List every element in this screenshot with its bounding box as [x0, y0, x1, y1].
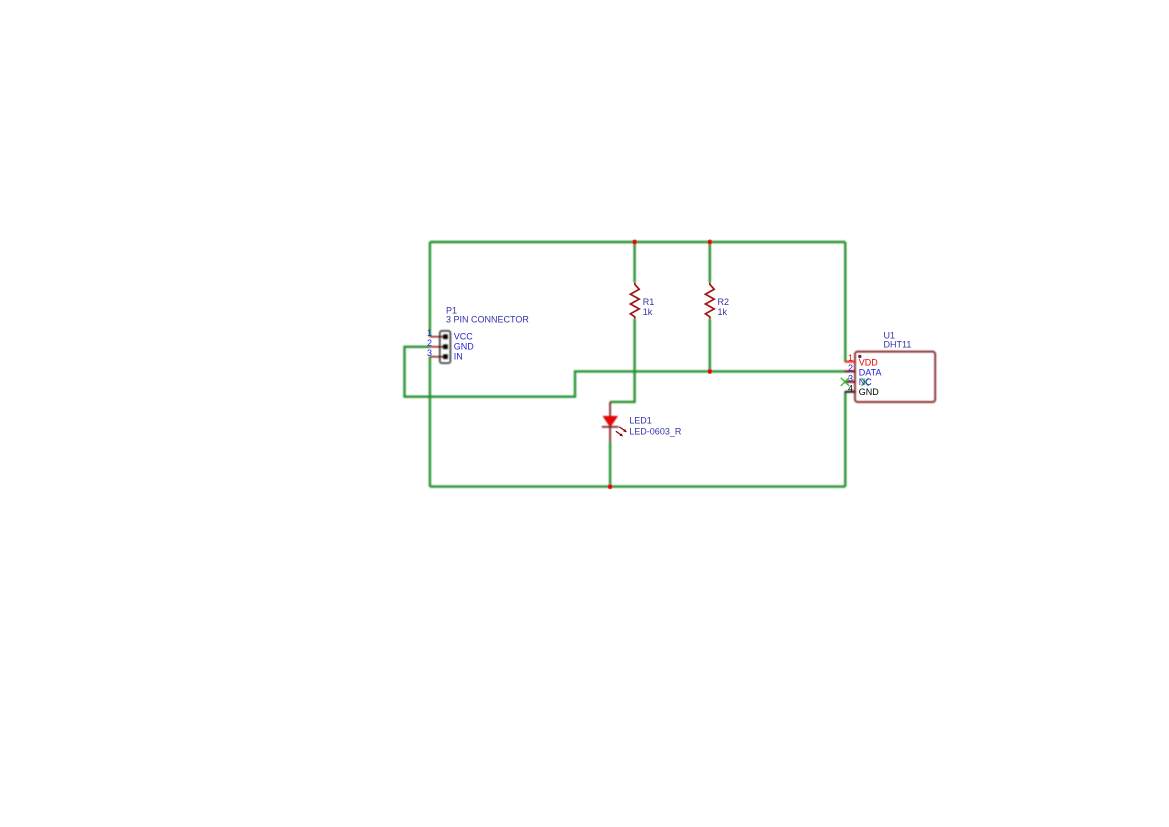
- svg-text:1k: 1k: [643, 307, 653, 317]
- svg-text:VDD: VDD: [859, 358, 879, 368]
- pin 1 stub (U1, VDD): [845, 361, 855, 363]
- svg-text:2: 2: [427, 338, 432, 348]
- svg-text:R1: R1: [643, 297, 655, 307]
- svg-text:2: 2: [848, 363, 853, 373]
- wire: R2 bottom lead to DATA net: [709, 319, 711, 372]
- svg-text:3 PIN CONNECTOR: 3 PIN CONNECTOR: [446, 315, 529, 325]
- LED cathode bar: [602, 426, 619, 428]
- wire: bottom rail: [430, 485, 845, 487]
- svg-text:3: 3: [427, 348, 432, 358]
- IC U1 DHT11 body: [845, 352, 935, 402]
- svg-text:LED-0603_R: LED-0603_R: [629, 427, 682, 437]
- pin 4 stub (U1, GND): [845, 391, 855, 393]
- pin 3 stub (U1, NC): [845, 381, 855, 383]
- svg-text:LED1: LED1: [629, 416, 652, 426]
- svg-text:1: 1: [427, 328, 432, 338]
- wire: left rail from top to P1 pin 1: [429, 242, 431, 337]
- svg-text:R2: R2: [718, 297, 730, 307]
- svg-text:NC: NC: [859, 377, 872, 387]
- pin 2 stub (P1): [430, 346, 443, 348]
- no-connect X on pin 3: [841, 378, 849, 386]
- LED triangle: [603, 416, 617, 426]
- wire: R2 top lead from rail: [709, 242, 711, 283]
- wire: LED cathode to bottom rail: [609, 442, 611, 487]
- no-connect X over NC name: [861, 378, 868, 386]
- wire: P1 pin 2 to DATA net and on to U1 pin 2: [405, 347, 846, 397]
- svg-text:3: 3: [848, 373, 853, 383]
- wire: R1 bottom lead down to LED branch: [610, 319, 635, 402]
- svg-text:4: 4: [848, 383, 853, 393]
- P1 pad square pin 1: [443, 334, 448, 339]
- LED anode lead: [609, 402, 611, 417]
- pin 3 stub (P1): [430, 356, 443, 358]
- connector P1 body: [430, 331, 450, 363]
- pin 2 stub (U1, DATA): [845, 370, 855, 372]
- wire: top VCC rail: [430, 241, 845, 243]
- svg-text:1k: 1k: [718, 307, 728, 317]
- svg-text:1: 1: [848, 353, 853, 363]
- wire: R1 top lead from rail: [633, 242, 635, 283]
- LED cathode lead: [609, 427, 611, 442]
- wire: right rail top to U1 pin 1: [844, 242, 846, 362]
- svg-text:VCC: VCC: [454, 332, 474, 342]
- svg-text:DHT11: DHT11: [884, 339, 912, 349]
- LED LED1 symbol: [602, 402, 619, 442]
- P1 pad square pin 3: [443, 354, 448, 359]
- pin 1 stub (P1): [430, 336, 443, 338]
- P1 body outline: [440, 331, 451, 363]
- node: junction top rail / R1: [632, 240, 637, 245]
- wire: right rail U1 pin 4 to bottom rail: [844, 392, 846, 487]
- LED emission arrow 1: [619, 427, 625, 431]
- svg-text:GND: GND: [859, 387, 880, 397]
- LED emission arrow 2: [616, 431, 622, 435]
- svg-text:DATA: DATA: [859, 367, 882, 377]
- node: junction R2 / DATA wire: [708, 369, 713, 374]
- wire: left rail from P1 pin 3 to bottom rail: [429, 357, 431, 487]
- resistor R2 body zigzag: [705, 283, 714, 319]
- P1 pad square pin 2: [443, 344, 448, 349]
- svg-text:GND: GND: [454, 342, 475, 352]
- node: junction LED cathode / bottom rail: [608, 484, 613, 489]
- node: junction top rail / R2: [708, 240, 713, 245]
- resistor R1 body zigzag: [630, 283, 639, 319]
- U1 body outline: [855, 352, 935, 402]
- svg-text:IN: IN: [454, 351, 463, 361]
- U1 pin-1 indicator dot: [858, 355, 861, 358]
